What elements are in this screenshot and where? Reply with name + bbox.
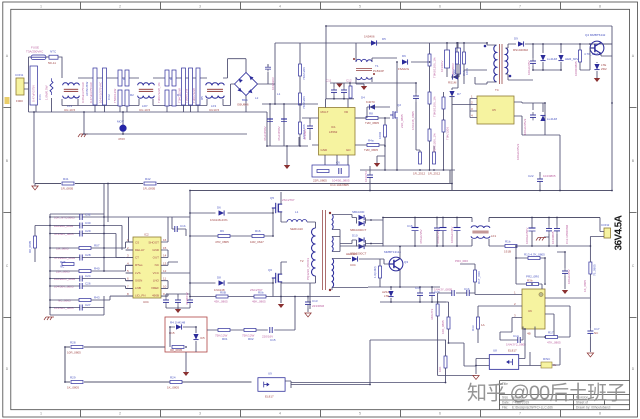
wire d7	[452, 88, 458, 191]
resistor R8	[172, 70, 176, 86]
ground above IC1	[336, 84, 342, 88]
wire aux mid	[533, 62, 590, 70]
optocoupler U9	[258, 378, 285, 392]
resistor RNC yellow	[541, 362, 552, 368]
wire bulk rail	[262, 104, 318, 146]
svg-text:C1b: C1b	[180, 224, 186, 228]
svg-text:LVS: LVS	[135, 271, 140, 275]
svg-text:10K: 10K	[438, 367, 442, 372]
svg-text:Q3: Q3	[404, 260, 408, 264]
capacitor C9 electrolytic	[281, 118, 287, 120]
IC2 controller	[133, 237, 161, 298]
svg-text:RTws: RTws	[135, 263, 143, 267]
svg-text:1N4/JY2_0805: 1N4/JY2_0805	[506, 343, 526, 347]
transformer T4 primary	[475, 42, 487, 84]
capacitor C36	[305, 299, 311, 307]
wire opto nets	[285, 340, 446, 388]
svg-text:C13: C13	[312, 299, 318, 303]
svg-text:T56K/12W: T56K/12W	[185, 89, 189, 103]
wire long rail upper	[35, 95, 452, 191]
svg-text:47uF/450V: 47uF/450V	[263, 126, 267, 141]
svg-text:D10: D10	[352, 234, 358, 238]
resistor R19 divider right	[589, 262, 592, 274]
divider chain x445 lower	[444, 356, 447, 368]
svg-text:103/50V_0805: 103/50V_0805	[54, 306, 74, 310]
svg-text:1: 1	[40, 411, 42, 415]
svg-text:74K/1206: 74K/1206	[302, 96, 306, 109]
svg-text:2: 2	[119, 411, 121, 415]
bottom border ticks	[81, 410, 561, 417]
svg-text:BR1: BR1	[242, 98, 248, 102]
svg-text:22K_0805: 22K_0805	[56, 270, 70, 274]
mosfet Q2	[390, 111, 398, 119]
diode D5	[371, 40, 377, 45]
resistor R14 divider	[428, 129, 431, 141]
ground right of U6	[562, 290, 568, 294]
capacitor C2	[103, 68, 107, 105]
svg-text:LID_PN: LID_PN	[135, 294, 146, 298]
wire pfc bottom rail	[360, 169, 455, 171]
choke LF4	[471, 226, 490, 239]
wire output V+ rail	[383, 217, 600, 219]
wire T2 primary bottom	[281, 276, 316, 309]
svg-text:R1b: R1b	[505, 240, 511, 244]
resistor R7b	[299, 122, 302, 134]
svg-text:T2R_0805: T2R_0805	[364, 148, 378, 152]
resistor R29	[71, 381, 83, 384]
svg-text:PQ3230_PFC03: PQ3230_PFC03	[306, 258, 310, 280]
svg-text:1.0M/0.5W: 1.0M/0.5W	[45, 85, 49, 100]
transformer T1	[356, 43, 397, 62]
capacitor C10	[456, 48, 461, 74]
capacitor C46	[554, 226, 560, 234]
wire vcc top rail	[326, 26, 612, 99]
resistor R50	[349, 86, 352, 98]
capacitor C41 electrolytic	[414, 218, 416, 247]
wire aux vcc rail	[525, 44, 612, 58]
diode D6	[399, 43, 430, 62]
capacitor C18	[537, 176, 543, 184]
capacitor C42 electrolytic	[442, 218, 444, 247]
X-capacitor CX1	[30, 66, 38, 105]
transformer T2 secondary w2	[332, 237, 333, 252]
svg-text:R8: R8	[369, 112, 373, 116]
svg-text:R43: R43	[94, 296, 100, 300]
svg-text:11: 11	[163, 277, 166, 281]
wire secondary taps	[332, 215, 368, 288]
svg-text:L1: L1	[295, 210, 299, 214]
svg-text:103/1KV: 103/1KV	[440, 60, 444, 72]
svg-text:49K_0805: 49K_0805	[252, 300, 266, 304]
ground caps	[175, 309, 181, 313]
diode D13	[540, 115, 545, 121]
svg-text:43K_0805: 43K_0805	[214, 300, 228, 304]
zener D19	[388, 291, 393, 297]
svg-text:SB10200: SB10200	[352, 210, 365, 214]
svg-text:R4 1N4148: R4 1N4148	[170, 321, 186, 325]
capacitor C5	[189, 68, 193, 105]
svg-text:104/50V_0805: 104/50V_0805	[54, 285, 74, 289]
svg-text:100uF/25V: 100uF/25V	[527, 60, 531, 75]
svg-text:L6562: L6562	[329, 130, 338, 134]
svg-text:3: 3	[199, 411, 201, 415]
svg-text:HER107: HER107	[346, 252, 358, 256]
svg-text:191B: 191B	[504, 250, 511, 254]
resistor R6	[299, 64, 302, 76]
ground right	[587, 353, 593, 357]
wire emitter rail	[332, 287, 446, 302]
svg-text:100uF/25V2: 100uF/25V2	[523, 118, 527, 135]
capacitor C17	[530, 112, 536, 120]
wire zener	[596, 62, 598, 78]
capacitor C34	[187, 297, 193, 305]
svg-text:C6: C6	[336, 161, 340, 165]
svg-text:100R/0805: 100R/0805	[574, 61, 578, 76]
resistor R3	[118, 90, 122, 106]
wire Q5 drain source	[281, 192, 287, 222]
zener D15	[193, 334, 198, 340]
wire pin3	[500, 318, 512, 341]
resistor R8 gate	[366, 117, 378, 120]
capacitor C13b	[339, 168, 341, 174]
svg-text:2SC2797: 2SC2797	[282, 198, 295, 202]
svg-text:74K/1206: 74K/1206	[302, 67, 306, 80]
svg-text:T4: T4	[495, 88, 499, 92]
svg-text:PLB10P: PLB10P	[373, 69, 384, 73]
svg-text:Q6: Q6	[268, 268, 272, 272]
svg-text:F6A02G: F6A02G	[398, 67, 410, 71]
svg-text:47uF/450V: 47uF/450V	[277, 126, 281, 141]
svg-text:R13 4.7K_0805: R13 4.7K_0805	[524, 253, 545, 257]
resistor R0B	[254, 295, 266, 298]
svg-text:U04: U04	[143, 300, 149, 304]
svg-text:R3b: R3b	[527, 279, 533, 283]
resistor R1	[50, 78, 53, 95]
svg-text:C29: C29	[85, 229, 91, 233]
svg-text:15: 15	[163, 246, 167, 250]
inductor L2	[287, 220, 307, 223]
wire bottom rail	[29, 96, 268, 147]
svg-text:1M_0805: 1M_0805	[56, 247, 69, 251]
svg-text:223/R6M: 223/R6M	[312, 304, 325, 308]
svg-text:T2: T2	[300, 259, 304, 263]
svg-text:D4: D4	[361, 96, 365, 100]
svg-text:U5: U5	[492, 108, 496, 112]
svg-text:8: 8	[599, 4, 601, 8]
capacitor C8 electrolytic	[267, 118, 273, 120]
svg-text:C16: C16	[407, 224, 413, 228]
svg-text:B: B	[6, 159, 8, 163]
ground T1	[361, 86, 367, 90]
wire pfc gnd rail	[267, 146, 308, 165]
svg-text:3: 3	[199, 4, 201, 8]
wire fb row B	[207, 297, 295, 331]
wire IC2 right nets	[129, 217, 191, 296]
wire sense	[385, 119, 397, 170]
svg-text:1R_2512: 1R_2512	[413, 172, 426, 176]
svg-text:1N4148: 1N4148	[214, 288, 225, 292]
svg-text:C04: C04	[350, 263, 356, 267]
U6 pins right	[545, 298, 590, 337]
mosfet Q6	[272, 273, 282, 283]
resistor R12 divider	[428, 54, 431, 66]
svg-text:104/0805: 104/0805	[543, 174, 556, 178]
resistor R17 below U6	[546, 336, 558, 339]
svg-text:Q2: Q2	[397, 103, 401, 107]
svg-text:4: 4	[279, 411, 281, 415]
wire output return rail	[340, 245, 590, 247]
wire c10	[457, 42, 459, 88]
wire divider	[429, 62, 431, 170]
capacitor C6	[196, 68, 200, 105]
svg-text:B: B	[632, 159, 634, 163]
svg-text:102/200V_0805: 102/200V_0805	[54, 277, 76, 281]
wire left rail	[50, 184, 104, 316]
resistor R20 rail	[144, 182, 156, 185]
resistor R9	[218, 235, 230, 238]
resistor R7	[299, 93, 302, 105]
ground aux	[594, 78, 600, 82]
svg-text:2SC2797: 2SC2797	[250, 288, 263, 292]
svg-text:T3KC/12W: T3KC/12W	[178, 88, 182, 103]
svg-text:R16: R16	[255, 229, 261, 233]
svg-text:R5: R5	[200, 96, 204, 100]
wire U5 left net	[452, 70, 470, 118]
capacitor C49	[452, 290, 454, 296]
svg-text:GND: GND	[152, 248, 160, 252]
svg-text:D9: D9	[514, 37, 518, 41]
svg-text:SER1410: SER1410	[290, 227, 303, 231]
svg-text:T3A/250VAC: T3A/250VAC	[26, 50, 44, 54]
capacitor C45	[546, 226, 552, 234]
svg-text:EL817: EL817	[265, 395, 274, 399]
svg-text:SIGN: SIGN	[135, 279, 142, 283]
svg-text:470uF/35V: 470uF/35V	[419, 229, 423, 244]
ground pfc	[284, 165, 290, 169]
wire T4 secondary	[508, 44, 533, 80]
svg-text:ZD2: ZD2	[601, 67, 607, 71]
svg-text:Q4 MMBT5442: Q4 MMBT5442	[585, 33, 606, 37]
svg-text:1R_0805: 1R_0805	[143, 187, 156, 191]
svg-text:C28: C28	[85, 253, 91, 257]
resistor R32 left	[474, 270, 477, 282]
capacitor C44b	[434, 225, 440, 233]
svg-text:6: 6	[439, 411, 441, 415]
connector CON2	[604, 228, 611, 238]
svg-text:6: 6	[439, 4, 441, 8]
svg-text:47R_0805: 47R_0805	[215, 240, 229, 244]
svg-text:File:: File:	[502, 405, 508, 409]
rectifier D17 pair	[359, 237, 365, 242]
svg-text:F000: F000	[16, 99, 23, 103]
svg-text:EL817: EL817	[508, 349, 517, 353]
svg-text:490B: 490B	[152, 294, 159, 298]
svg-text:R42: R42	[145, 177, 151, 181]
svg-text:D5: D5	[382, 37, 386, 41]
resistor R45	[442, 97, 445, 109]
top border ticks	[81, 3, 561, 10]
svg-text:C15: C15	[270, 338, 276, 342]
choke LF3	[206, 83, 225, 98]
resistor R8b	[172, 90, 176, 106]
svg-text:C1b: C1b	[464, 287, 470, 291]
capacitor CX2	[93, 68, 97, 105]
svg-text:D6: D6	[217, 206, 221, 210]
IC U6 shunt regulator	[522, 289, 545, 329]
svg-text:1000uF/50V: 1000uF/50V	[525, 228, 529, 244]
svg-text:CT: CT	[135, 256, 139, 260]
resistor R22 in return	[505, 245, 517, 248]
svg-text:U8: U8	[493, 349, 497, 353]
svg-text:CON1: CON1	[15, 73, 24, 77]
transistor Q3	[389, 257, 403, 271]
svg-text:0R_0805: 0R_0805	[28, 240, 32, 253]
svg-text:34K/JY2: 34K/JY2	[430, 308, 434, 320]
rc box below IC1	[312, 165, 349, 177]
svg-text:23K_0805: 23K_0805	[400, 114, 404, 128]
svg-text:UU10.5: UU10.5	[209, 108, 220, 112]
svg-text:1R_2512: 1R_2512	[428, 172, 441, 176]
transformer T4 core	[499, 44, 501, 84]
svg-text:C22: C22	[528, 174, 534, 178]
choke LF2	[138, 83, 155, 98]
wire MOV rail	[84, 133, 247, 135]
svg-text:CX1: CX1	[38, 94, 42, 100]
capacitor C11 above IC1	[331, 87, 337, 95]
svg-text:T9K/1206: T9K/1206	[446, 127, 450, 140]
wire Q4	[590, 26, 612, 191]
svg-text:1N4/JY_0805: 1N4/JY_0805	[434, 288, 453, 292]
svg-text:100uF/25V2: 100uF/25V2	[516, 143, 520, 160]
svg-text:10K_0805: 10K_0805	[441, 320, 445, 334]
svg-text:C32: C32	[85, 213, 91, 217]
svg-text:CX2: CX2	[107, 94, 111, 100]
svg-text:UU-10.5: UU-10.5	[139, 108, 151, 112]
chassis ground output	[536, 238, 546, 241]
resistor R19 rail	[62, 182, 74, 185]
capacitor C38	[417, 290, 423, 298]
wire bottom path	[62, 84, 235, 106]
capacitor C4	[182, 68, 186, 105]
svg-text:IC2: IC2	[144, 233, 149, 237]
svg-text:U6: U6	[528, 309, 532, 313]
svg-text:C11: C11	[326, 79, 332, 83]
resistor R7	[165, 90, 169, 106]
resistor R4	[125, 70, 129, 86]
svg-text:C11:105R08M: C11:105R08M	[565, 224, 569, 244]
svg-text:D7: D7	[457, 92, 461, 96]
wire boost top rail	[275, 43, 487, 104]
capacitor C12 above IC1	[341, 87, 347, 95]
snubber capacitor C15	[445, 50, 450, 68]
svg-text:SHOOT: SHOOT	[148, 241, 159, 245]
svg-text:T2R_0805: T2R_0805	[365, 121, 379, 125]
svg-text:4B: 4B	[527, 332, 531, 336]
IC1 pins	[302, 99, 367, 165]
resistor R18	[579, 50, 582, 62]
ground rail left	[32, 186, 38, 190]
svg-text:36V4.5A: 36V4.5A	[614, 215, 625, 250]
wire opto U8 nets	[476, 329, 541, 374]
resistor R4a	[367, 144, 379, 147]
diode D8 gate lower	[219, 280, 225, 285]
yellow cursor mark on left border	[5, 97, 10, 104]
svg-text:RS1040M2: RS1040M2	[513, 48, 528, 52]
resistor R15b	[317, 170, 329, 173]
svg-text:Drawn by: 00houtubanzi: Drawn by: 00houtubanzi	[576, 405, 611, 409]
svg-text:1: 1	[40, 4, 42, 8]
wire to filter	[58, 57, 62, 71]
svg-text:L1: L1	[277, 92, 281, 96]
svg-text:8: 8	[599, 411, 601, 415]
resistor R26 in box	[172, 346, 184, 349]
capacitor C15	[270, 327, 272, 333]
wire CON1 pins	[24, 57, 29, 112]
svg-text:MULT: MULT	[321, 110, 329, 114]
capacitor C17 NC right	[587, 328, 593, 336]
svg-text:SB10200CT: SB10200CT	[350, 228, 367, 232]
svg-text:LTE: LTE	[384, 294, 389, 298]
svg-text:IC5: IC5	[200, 336, 205, 340]
svg-text:10R_0647: 10R_0647	[250, 240, 264, 244]
svg-text:MOV: MOV	[117, 120, 124, 124]
wire CON2 pins	[590, 218, 604, 247]
resistor R6	[165, 70, 169, 86]
svg-text:1K_0805: 1K_0805	[167, 386, 179, 390]
resistor R47	[442, 120, 445, 132]
wire long rail lower	[190, 190, 612, 192]
svg-text:102/200_0805: 102/200_0805	[54, 224, 74, 228]
resistor R02	[244, 329, 256, 332]
capacitor C31	[163, 297, 169, 305]
IC U5 regulator	[477, 96, 514, 124]
U6 pins left	[512, 295, 522, 318]
svg-text:T3KC/12W: T3KC/12W	[192, 88, 196, 103]
connector CON1	[16, 78, 24, 95]
svg-text:LNO: LNO	[153, 279, 160, 283]
diode D4 gate	[369, 104, 375, 109]
svg-text:HER_60V: HER_60V	[565, 57, 578, 61]
IC1 controller	[319, 108, 356, 156]
svg-text:1000uF/35V: 1000uF/35V	[450, 227, 454, 243]
svg-text:14: 14	[163, 254, 167, 258]
svg-text:T3KC/12W_1%: T3KC/12W_1%	[157, 82, 161, 103]
svg-text:T9K6/1206_1%: T9K6/1206_1%	[433, 96, 437, 117]
capacitor C7	[267, 64, 269, 84]
svg-text:T56K/12W: T56K/12W	[113, 89, 117, 103]
svg-text:471R/1W: 471R/1W	[185, 292, 189, 305]
resistor R24	[170, 381, 182, 384]
transformer T2 primary	[312, 228, 316, 276]
svg-text:104/X2/275VAC: 104/X2/275VAC	[99, 81, 103, 103]
resistor R01	[218, 329, 230, 332]
svg-text:GND: GND	[321, 148, 329, 152]
capacitor C47 right of U6	[557, 252, 565, 289]
svg-text:R1T_0R0: R1T_0R0	[477, 271, 481, 284]
svg-text:474/50V: 474/50V	[303, 129, 307, 140]
snubber wires	[447, 42, 487, 77]
resistor R16	[252, 235, 264, 238]
wire drop to control	[108, 184, 190, 297]
capacitor C39	[429, 290, 435, 298]
svg-text:R40: R40	[94, 267, 100, 271]
transformer T4 secondary	[506, 48, 508, 74]
resistor R10	[419, 152, 422, 164]
svg-text:75_0805: 75_0805	[593, 264, 597, 276]
capacitor C1b right top	[175, 226, 177, 232]
svg-text:0R_0805: 0R_0805	[170, 348, 183, 352]
svg-text:T9K6/1206_1%: T9K6/1206_1%	[433, 57, 437, 78]
